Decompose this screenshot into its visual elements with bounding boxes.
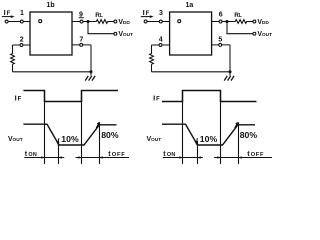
pin label 9 (underlined)	[79, 11, 83, 18]
arrowhead tON left (right)	[179, 156, 182, 159]
svg-text:I: I	[4, 8, 6, 17]
node pin 9	[80, 20, 83, 23]
reference line t2 (10%, right)	[197, 141, 199, 164]
reference line t3	[81, 102, 83, 164]
label IF (input current)	[4, 8, 11, 17]
arrowhead tON right (right)	[198, 156, 201, 159]
wire input to box pin1	[8, 21, 30, 23]
label tON (right)	[163, 151, 175, 158]
arrowhead tOFF right	[100, 156, 103, 159]
wire pin 4	[152, 44, 170, 46]
svg-text:10%: 10%	[200, 134, 218, 144]
label RL (right)	[234, 12, 242, 19]
wire bottom rail	[13, 71, 92, 73]
svg-text:2: 2	[20, 37, 24, 44]
node pin 2	[20, 44, 23, 47]
label tON	[25, 151, 37, 158]
dimension line tOFF (right)	[214, 157, 272, 159]
node pin 5	[219, 43, 222, 46]
svg-text:OUT: OUT	[151, 137, 161, 143]
pin-1 marker circle inside box (right)	[178, 20, 181, 23]
svg-text:80%: 80%	[240, 130, 258, 140]
dimension line tON	[24, 157, 64, 159]
svg-text:5: 5	[218, 37, 222, 44]
junction output node (right)	[225, 20, 228, 23]
wire pin 6 to junction	[212, 21, 236, 23]
wire input to box pin3	[147, 21, 169, 23]
node pin 1	[20, 20, 23, 23]
svg-text:OFF: OFF	[251, 152, 265, 158]
reference line t1	[44, 102, 46, 164]
svg-text:80%: 80%	[101, 130, 119, 140]
resistor R1 (vertical)	[11, 54, 15, 65]
junction output node	[86, 20, 89, 23]
wire resistor to bottom rail	[12, 64, 14, 72]
label VOUT waveform	[8, 136, 23, 143]
svg-text:L: L	[239, 13, 242, 19]
terminal VDD (right)	[253, 20, 256, 23]
waveform VOUT trace (right)	[162, 124, 255, 145]
arrowhead tOFF right (right)	[239, 156, 242, 159]
svg-text:DD: DD	[123, 20, 130, 26]
junction ground node (right)	[228, 70, 231, 73]
label VOUT waveform (right)	[147, 136, 162, 143]
arrow IF direction (right)	[141, 15, 154, 18]
node pin 4	[159, 44, 162, 47]
terminal VDD	[114, 20, 117, 23]
wire pin5 down to rail (right)	[229, 45, 231, 76]
arrowhead tON left	[41, 156, 44, 159]
svg-text:4: 4	[159, 37, 163, 44]
label tOFF	[108, 151, 125, 158]
label VDD (right)	[257, 19, 269, 26]
ground	[85, 76, 95, 81]
label VOUT (right)	[257, 31, 272, 38]
arrow 80% marker	[96, 122, 100, 128]
junction ground node	[89, 70, 92, 73]
svg-text:10%: 10%	[61, 134, 79, 144]
arrow IF direction	[2, 15, 15, 18]
wire VOUT branch	[88, 22, 114, 34]
wire down to resistor	[12, 45, 14, 54]
svg-text:L: L	[100, 13, 103, 19]
box U1a	[170, 12, 212, 55]
waveform VOUT trace (left)	[23, 124, 116, 145]
resistor RL (horizontal, right)	[235, 20, 246, 24]
arrowhead tOFF left (right)	[217, 156, 220, 159]
input terminal (right)	[144, 20, 147, 23]
arrow 10% marker	[56, 138, 59, 145]
svg-text:1a: 1a	[186, 2, 194, 9]
resistor RL (horizontal)	[96, 20, 107, 24]
reference line t3 (right)	[220, 102, 222, 164]
ground (right)	[224, 76, 234, 81]
terminal VOUT (right)	[253, 32, 256, 35]
svg-text:OFF: OFF	[112, 152, 126, 158]
dimension line tOFF	[76, 157, 130, 159]
label VDD	[118, 19, 130, 26]
wire RL to VDD terminal (right)	[247, 21, 253, 23]
svg-text:7: 7	[79, 37, 83, 44]
wire bottom rail (right)	[152, 71, 231, 73]
waveform IF trace (left)	[23, 91, 118, 102]
wire RL to VDD terminal	[108, 21, 114, 23]
label tOFF (right)	[247, 151, 264, 158]
svg-text:I: I	[15, 94, 17, 103]
resistor R2 (vertical)	[150, 54, 154, 65]
svg-text:I: I	[153, 94, 155, 103]
svg-text:ON: ON	[28, 152, 37, 158]
label IF (input current, right)	[143, 8, 150, 17]
svg-text:OUT: OUT	[13, 137, 23, 143]
wire pin 2	[13, 44, 31, 46]
svg-text:1b: 1b	[47, 2, 55, 9]
box U1b	[30, 12, 72, 55]
svg-text:I: I	[143, 8, 145, 17]
reference line t2 (10%)	[58, 141, 60, 164]
wire pin 7	[72, 44, 91, 46]
arrowhead tOFF left	[78, 156, 81, 159]
input terminal	[5, 20, 8, 23]
svg-text:F: F	[18, 97, 22, 103]
label IF waveform (right)	[153, 94, 160, 103]
svg-text:DD: DD	[262, 20, 269, 26]
dimension line tON (right)	[163, 157, 203, 159]
wire pin7 down to rail	[90, 45, 92, 76]
pin-1 marker circle inside box	[39, 20, 42, 23]
arrow 10% marker (right)	[195, 138, 198, 145]
svg-text:OUT: OUT	[123, 32, 133, 38]
wire pin 9 to junction	[72, 21, 97, 23]
wire VOUT branch (right)	[227, 22, 253, 34]
waveform IF trace (right)	[162, 91, 257, 102]
svg-text:OUT: OUT	[262, 32, 272, 38]
label RL	[95, 12, 103, 19]
reference line t4 (80%, right)	[238, 122, 240, 164]
node pin 3	[159, 20, 162, 23]
node pin 6	[219, 20, 222, 23]
label IF waveform	[15, 94, 22, 103]
terminal VOUT	[114, 32, 117, 35]
arrow 80% marker (right)	[235, 122, 239, 128]
svg-text:1: 1	[20, 10, 24, 17]
wire down to resistor (right)	[151, 45, 153, 54]
svg-text:ON: ON	[167, 152, 176, 158]
node pin 7	[80, 43, 83, 46]
svg-text:F: F	[156, 97, 160, 103]
reference line t4 (80%)	[99, 122, 101, 164]
label VOUT	[118, 31, 133, 38]
reference line t1 (right)	[182, 102, 184, 164]
svg-text:6: 6	[219, 11, 223, 18]
wire pin 5	[212, 44, 230, 46]
wire resistor to bottom rail (right)	[151, 64, 153, 72]
arrowhead tON right	[59, 156, 62, 159]
svg-text:3: 3	[159, 10, 163, 17]
